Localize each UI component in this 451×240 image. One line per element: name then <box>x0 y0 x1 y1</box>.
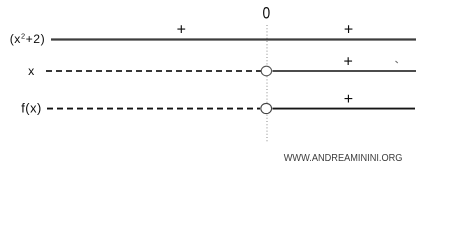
svg-text:+: + <box>344 22 353 39</box>
svg-text:+: + <box>344 91 353 108</box>
svg-text:f(x): f(x) <box>21 100 42 115</box>
svg-text:0: 0 <box>263 5 271 23</box>
svg-text:+: + <box>177 22 186 39</box>
svg-text:+: + <box>344 54 353 71</box>
svg-text:x: x <box>28 64 35 78</box>
svg-text:WWW.ANDREAMININI.ORG: WWW.ANDREAMININI.ORG <box>284 153 403 164</box>
svg-text:(x2+2): (x2+2) <box>10 32 46 46</box>
